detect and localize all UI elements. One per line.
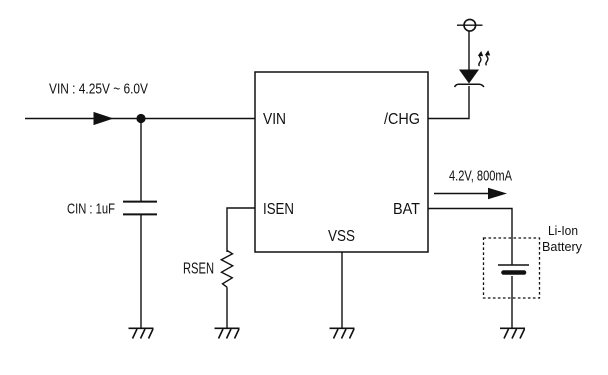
wire BAT to battery: [428, 209, 512, 266]
wire ISEN: [227, 208, 255, 252]
LED D1 cathode bar: [455, 84, 485, 87]
battery BT1 negative plate: [504, 270, 525, 275]
svg-text:VIN: VIN: [263, 111, 286, 128]
arrow current-direction on VIN wire: [94, 112, 114, 125]
svg-text:Li-Ion: Li-Ion: [548, 223, 578, 238]
svg-text:VSS: VSS: [328, 228, 355, 245]
svg-text:Battery: Battery: [542, 239, 582, 254]
wire CIN bottom: [140, 215, 142, 328]
ground under CIN: [129, 328, 154, 338]
ground under RSEN: [215, 328, 240, 338]
wire RSEN to ground: [226, 287, 228, 328]
op-amp U1 charger IC body: [255, 72, 428, 252]
resistor RSEN zigzag: [221, 251, 232, 288]
wire VSS: [341, 252, 343, 328]
svg-text:CIN : 1uF: CIN : 1uF: [67, 202, 115, 218]
LED light emission arrows: [479, 53, 488, 66]
svg-text:VIN : 4.25V ~ 6.0V: VIN : 4.25V ~ 6.0V: [49, 82, 148, 98]
svg-text:ISEN: ISEN: [263, 201, 294, 218]
svg-text:4.2V, 800mA: 4.2V, 800mA: [449, 169, 512, 185]
arrow charge current: [434, 193, 492, 195]
capacitor CIN plates: [123, 201, 157, 203]
wire battery to ground: [511, 276, 513, 328]
ground under VSS: [330, 328, 355, 338]
ground under battery: [500, 328, 525, 338]
power terminal circle: [464, 19, 476, 31]
node junction VIN/CIN: [136, 114, 145, 123]
wire /CHG to LED: [428, 86, 469, 119]
svg-text:/CHG: /CHG: [384, 111, 420, 128]
power terminal bar: [457, 24, 483, 26]
battery BT1 positive plate: [498, 264, 529, 266]
wire LED to supply: [468, 31, 470, 70]
wire CIN top: [140, 119, 142, 202]
svg-text:BAT: BAT: [393, 201, 420, 218]
battery BT1 dashed outline: [484, 238, 540, 298]
LED D1 triangle: [459, 70, 479, 84]
svg-text:RSEN: RSEN: [183, 261, 214, 278]
wire VIN input line: [25, 118, 255, 120]
LED light arrowheads: [478, 51, 483, 56]
